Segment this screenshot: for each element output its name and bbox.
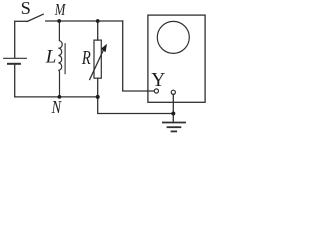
resistor arrow head bbox=[101, 44, 107, 52]
resistor R top lead bbox=[97, 21, 99, 40]
resistor R body bbox=[94, 40, 101, 78]
wire: scope Y-input feed (corner down + to terminal) bbox=[123, 21, 155, 91]
svg-text:L: L bbox=[45, 46, 57, 67]
resistor arrow shaft bbox=[90, 51, 104, 80]
wire: right branch down from node2 to lower rail bbox=[98, 97, 174, 114]
wire: top rail from switch to corner bbox=[46, 20, 123, 22]
ground bar 2 bbox=[168, 126, 181, 128]
terminal Y (input post) bbox=[154, 89, 158, 93]
svg-text:Y: Y bbox=[151, 70, 165, 91]
node (bottom of R branch) junction dot bbox=[96, 95, 100, 99]
resistor R bottom lead bbox=[97, 78, 99, 97]
node (top of R branch) junction dot bbox=[96, 19, 100, 23]
switch S blade bbox=[27, 14, 43, 21]
svg-text:S: S bbox=[21, 0, 31, 18]
inductor L branch wire + coil bbox=[58, 21, 62, 97]
oscilloscope screen circle bbox=[157, 21, 189, 53]
wire: ground post down to earth bbox=[172, 94, 174, 122]
ground bar 3 bbox=[172, 130, 177, 132]
wire: left vertical (battery top lead) bbox=[14, 21, 16, 57]
node N junction dot bbox=[58, 95, 62, 99]
svg-text:N: N bbox=[51, 97, 62, 117]
wire: bottom rail bbox=[15, 96, 98, 98]
oscilloscope box U1 bbox=[148, 15, 205, 102]
battery short plate bbox=[8, 63, 20, 65]
terminal ground post bbox=[171, 90, 175, 94]
inductor core bar bbox=[64, 44, 66, 74]
ground bar 1 bbox=[163, 122, 185, 124]
svg-text:R: R bbox=[81, 48, 91, 69]
svg-text:M: M bbox=[54, 0, 66, 19]
wire: battery bottom lead bbox=[14, 65, 16, 97]
battery long plate bbox=[4, 57, 27, 59]
node (earth junction) dot bbox=[171, 112, 175, 116]
node M junction dot bbox=[57, 19, 61, 23]
wire: left horizontal to switch pivot bbox=[15, 20, 28, 22]
